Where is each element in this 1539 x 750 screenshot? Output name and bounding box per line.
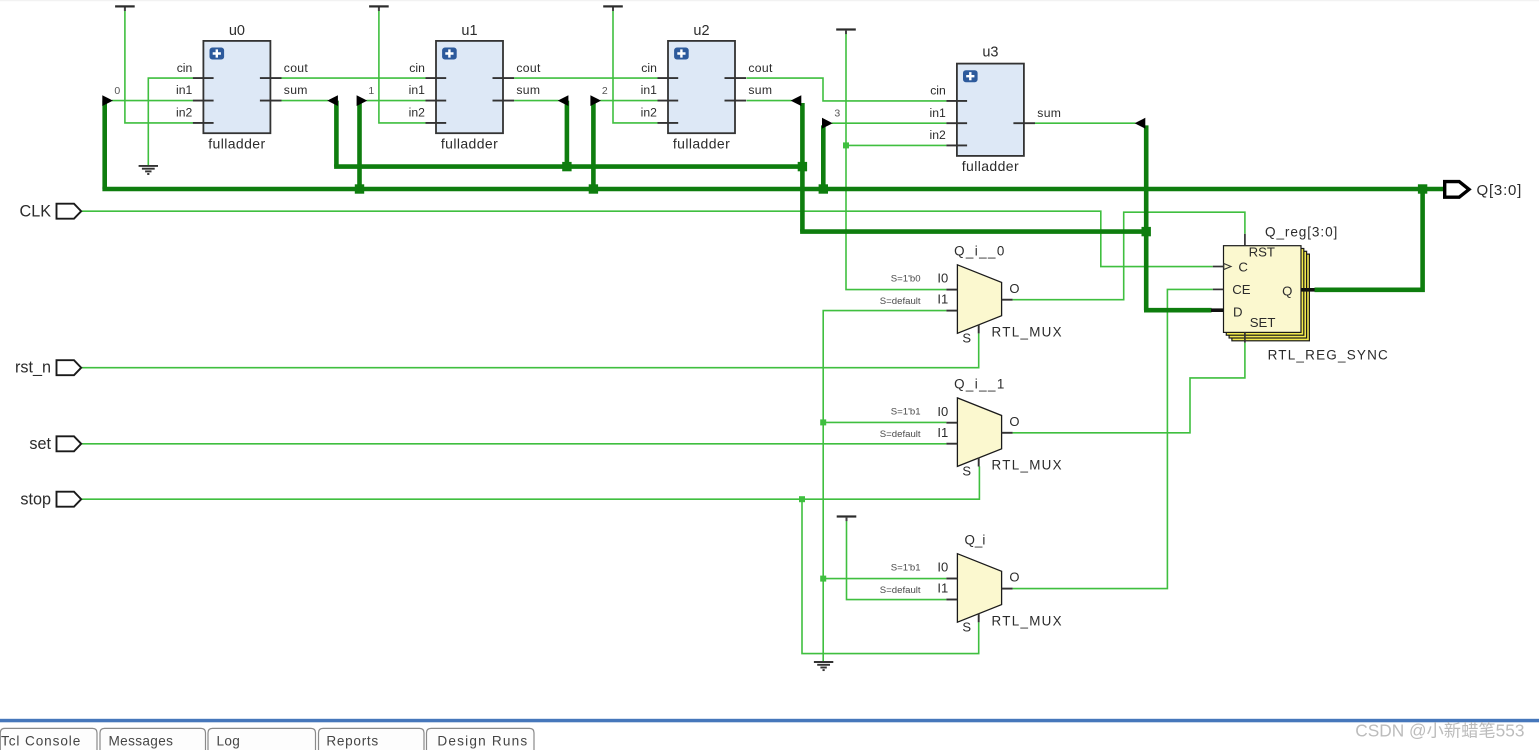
junction stop branch	[799, 496, 805, 502]
bus Q tap 1 vertical	[357, 101, 362, 189]
sum tap arrow u0	[327, 95, 338, 106]
svg-text:in1: in1	[930, 106, 946, 120]
svg-text:Q_i__0: Q_i__0	[954, 244, 1006, 259]
svg-text:C: C	[1238, 260, 1248, 275]
svg-text:S=default: S=default	[880, 429, 921, 440]
junction bus Q at output branch	[1418, 184, 1427, 193]
svg-text:O: O	[1009, 281, 1019, 296]
svg-text:RTL_REG_SYNC: RTL_REG_SYNC	[1268, 348, 1389, 363]
wire rst_n net	[82, 333, 979, 367]
svg-text:Q[3:0]: Q[3:0]	[1477, 182, 1523, 199]
mux Q_i__0	[957, 265, 1001, 334]
bus u1 sum tap vertical	[565, 101, 570, 167]
svg-text:SET: SET	[1250, 315, 1276, 330]
port Q[3:0] output	[1445, 182, 1469, 198]
svg-text:S: S	[962, 331, 971, 346]
sum tap arrow u3	[1135, 118, 1146, 129]
Q_i__0 pin stubs	[946, 290, 1012, 334]
svg-text:3: 3	[834, 107, 840, 119]
svg-text:Q_reg[3:0]: Q_reg[3:0]	[1265, 224, 1338, 239]
wire u3 in2 branch	[846, 144, 946, 146]
wire tap 0 to u0 in1	[112, 100, 193, 102]
svg-text:I0: I0	[937, 560, 948, 575]
svg-text:RTL_MUX: RTL_MUX	[992, 325, 1063, 340]
svg-text:in2: in2	[176, 106, 192, 120]
svg-text:I1: I1	[937, 425, 948, 440]
svg-text:in2: in2	[641, 106, 657, 120]
svg-text:S: S	[962, 464, 971, 479]
fulladder u0	[203, 41, 270, 133]
bus tap arrow 3	[822, 118, 833, 129]
svg-text:S=1'b1: S=1'b1	[891, 563, 921, 574]
wire u1 cout to u2 cin	[514, 77, 657, 79]
svg-text:Messages: Messages	[109, 734, 174, 749]
svg-text:in1: in1	[409, 83, 425, 97]
ground symbol bottom	[814, 662, 833, 670]
wire tap 1 to u1 in1	[366, 100, 425, 102]
svg-text:RTL_MUX: RTL_MUX	[992, 614, 1063, 629]
wire u1 sum to bus tap	[514, 100, 559, 102]
svg-text:CLK: CLK	[20, 202, 52, 220]
svg-text:I0: I0	[937, 404, 948, 419]
svg-text:1: 1	[368, 85, 374, 97]
svg-text:Reports: Reports	[326, 734, 379, 749]
tab Reports	[319, 728, 425, 750]
bottom blue splitter	[0, 719, 1539, 723]
junction bus Q tap2	[589, 184, 598, 193]
wire u2 sum to bus tap	[747, 100, 792, 102]
bus Q down to register Q pin	[1315, 189, 1423, 290]
register Q_reg RTL_REG_SYNC stack	[1224, 246, 1310, 341]
bus u0 sum tap vertical	[334, 101, 339, 167]
svg-text:u0: u0	[229, 23, 245, 39]
tab Tcl Console	[0, 728, 97, 750]
svg-text:O: O	[1009, 414, 1019, 429]
port rst_n	[57, 360, 82, 375]
fulladder u2	[668, 41, 735, 133]
svg-text:Q: Q	[1282, 284, 1292, 299]
wire power to u1 in2	[379, 11, 426, 123]
register clock wedge	[1224, 264, 1231, 270]
Q_i__1 pin stubs	[946, 423, 1012, 467]
svg-text:fulladder: fulladder	[441, 136, 498, 152]
bus tap arrow 2	[590, 95, 601, 106]
svg-text:cout: cout	[748, 61, 773, 75]
bus D collector lower horizontal	[800, 229, 1146, 234]
tab Log	[208, 728, 316, 750]
svg-text:sum: sum	[748, 83, 772, 97]
tab Design Runs	[427, 728, 535, 750]
junction bus Q tap1	[355, 184, 364, 193]
power symbol above Q_i	[837, 515, 857, 521]
bus tap arrow 0	[102, 95, 113, 106]
fulladder u3	[957, 64, 1024, 156]
wire power to u2 in2	[613, 11, 658, 123]
sum tap arrow u2	[791, 95, 802, 106]
svg-text:CE: CE	[1232, 282, 1251, 297]
u0 pin stubs	[193, 78, 282, 123]
svg-text:Q_i__1: Q_i__1	[954, 377, 1006, 392]
svg-text:cin: cin	[930, 84, 946, 98]
svg-text:O: O	[1009, 570, 1019, 585]
junction bus Q tap3	[819, 184, 828, 193]
wire set net	[82, 443, 947, 445]
bus Q to output port	[1423, 187, 1445, 192]
svg-text:RST: RST	[1249, 244, 1275, 259]
wire u3 sum to bus tap	[1035, 122, 1136, 124]
power symbol above u2	[603, 5, 623, 11]
svg-text:S=default: S=default	[880, 585, 921, 596]
port stop	[57, 492, 82, 507]
svg-text:I0: I0	[937, 271, 948, 286]
svg-text:cin: cin	[409, 61, 425, 75]
svg-text:Tcl Console: Tcl Console	[1, 734, 81, 749]
svg-text:Log: Log	[217, 734, 241, 749]
wire u0 cin to ground	[148, 78, 193, 165]
svg-text:RTL_MUX: RTL_MUX	[992, 458, 1063, 473]
wire power to u3 in2 and Q_i__0 I0	[846, 34, 946, 290]
power symbol above u1	[369, 5, 389, 11]
wire u0 cout to u1 cin	[282, 77, 426, 79]
sum tap arrow u1	[558, 95, 569, 106]
tab Messages	[100, 728, 206, 750]
svg-text:CSDN @小新蜡笔553: CSDN @小新蜡笔553	[1355, 721, 1524, 741]
svg-text:cout: cout	[516, 61, 541, 75]
junction u3 in2 power	[843, 142, 849, 148]
bus Q main horizontal	[102, 187, 1422, 192]
svg-text:sum: sum	[516, 83, 540, 97]
svg-text:D: D	[1233, 304, 1243, 319]
svg-text:cin: cin	[177, 61, 193, 75]
wire Q_i__1 O to SET	[1013, 343, 1245, 433]
wire Q_i__1 I0	[823, 421, 946, 423]
junction Q_i__1 I0	[820, 419, 826, 425]
svg-text:S=default: S=default	[880, 296, 921, 307]
svg-text:u3: u3	[982, 45, 998, 61]
wire Q_i I0	[823, 578, 946, 580]
junction bus D at register column	[1142, 227, 1151, 236]
junction Q_i I0	[820, 576, 826, 582]
junction bus A u1 sum	[562, 162, 571, 171]
svg-text:0: 0	[114, 85, 120, 97]
svg-text:in1: in1	[176, 83, 192, 97]
power symbol above u3	[836, 28, 856, 34]
svg-text:S=1'b0: S=1'b0	[891, 274, 921, 285]
svg-text:cin: cin	[641, 61, 657, 75]
u1 pin stubs	[426, 78, 515, 123]
power symbol above u0	[115, 5, 135, 11]
port set	[57, 436, 82, 451]
svg-text:sum: sum	[1037, 106, 1061, 120]
junction bus A u2 sum	[798, 162, 807, 171]
wire tap 2 to u2 in1	[600, 100, 657, 102]
wire stop branch to S of Q_i	[802, 499, 979, 653]
mux Q_i__1	[957, 398, 1001, 467]
svg-text:2: 2	[602, 85, 608, 97]
bus D wire into register	[1144, 308, 1212, 313]
bus Q tap 3 vertical	[821, 125, 826, 189]
svg-text:I1: I1	[937, 581, 948, 596]
wire CLK net	[82, 211, 1213, 266]
svg-text:I1: I1	[937, 292, 948, 307]
svg-text:S: S	[962, 620, 971, 635]
u2 pin stubs	[658, 78, 747, 123]
svg-text:in1: in1	[641, 83, 657, 97]
svg-text:u1: u1	[461, 23, 477, 39]
bus D sum collector horizontal	[334, 164, 802, 169]
wire power to Q_i I1	[847, 521, 947, 600]
svg-text:fulladder: fulladder	[962, 158, 1019, 174]
svg-text:cout: cout	[284, 61, 309, 75]
register pin stubs	[1211, 234, 1315, 343]
svg-text:Q_i: Q_i	[964, 533, 985, 548]
wire u0 sum to bus tap	[282, 100, 329, 102]
mux Q_i	[957, 554, 1001, 623]
wire Q_i__0 I1 chain to ground	[823, 311, 946, 662]
fulladder u1	[436, 41, 503, 133]
svg-text:fulladder: fulladder	[208, 136, 265, 152]
ground symbol u0 cin	[139, 166, 158, 174]
svg-text:sum: sum	[284, 83, 308, 97]
svg-text:Design Runs: Design Runs	[437, 734, 528, 749]
svg-text:stop: stop	[20, 490, 51, 508]
bus u3 sum tap vertical to D	[1144, 125, 1149, 310]
wire Q_i__0 O to RST	[1013, 212, 1245, 300]
bus tap arrow 1	[357, 95, 368, 106]
wire Q_i O to CE	[1013, 289, 1213, 588]
svg-text:fulladder: fulladder	[673, 136, 730, 152]
svg-text:in2: in2	[409, 106, 425, 120]
bus Q tap 2 vertical	[591, 101, 596, 189]
svg-text:set: set	[29, 435, 51, 453]
wire tap 3 to u3 in1	[832, 122, 947, 124]
wire power to u0 in2	[125, 11, 193, 123]
svg-text:rst_n: rst_n	[15, 359, 51, 377]
u3 pin stubs	[946, 101, 1035, 145]
wire u2 cout to u3 cin	[747, 78, 947, 101]
bus u2 sum tap vertical	[800, 103, 805, 232]
bus Q tap 0 vertical	[102, 101, 107, 189]
svg-text:S=1'b1: S=1'b1	[891, 407, 921, 418]
wire stop net	[82, 466, 980, 499]
port CLK	[57, 204, 82, 219]
svg-text:u2: u2	[693, 23, 709, 39]
Q_i pin stubs	[946, 579, 1012, 623]
svg-text:in2: in2	[930, 128, 946, 142]
